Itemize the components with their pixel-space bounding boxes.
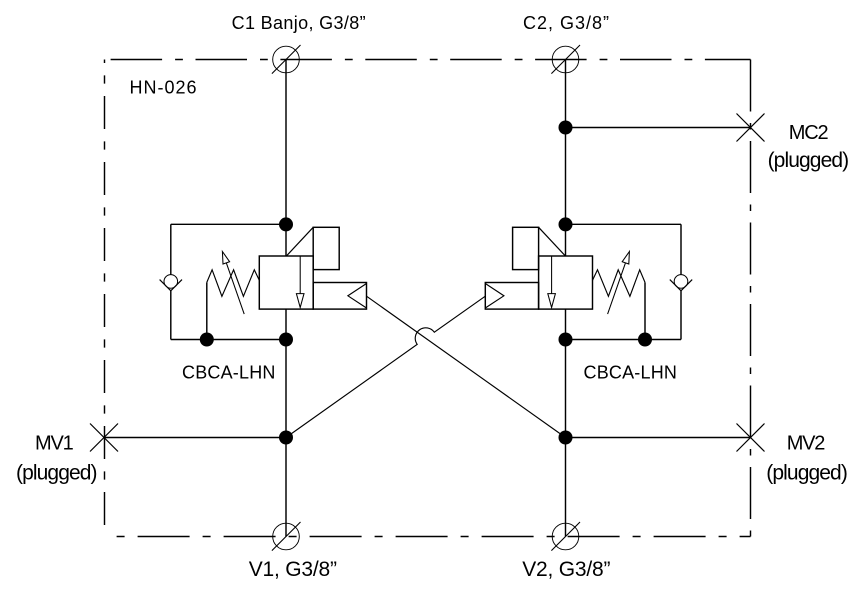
svg-text:V2, G3/8”: V2, G3/8” — [522, 558, 610, 581]
left CBCA-LHN: wire bottom rail — [171, 339, 286, 341]
pilot piston arrow (right CBCA-LHN) — [485, 284, 504, 309]
pilot piston arrow (left CBCA-LHN) — [348, 284, 367, 309]
pilot box upper (left CBCA-LHN) — [313, 227, 339, 269]
junction node right valve bottom — [559, 333, 573, 347]
pilot line left valve to MV2 node — [367, 296, 566, 437]
junction node MV2 — [559, 431, 573, 445]
pilot connection diagonal (right CBCA-LHN) — [539, 227, 566, 256]
check valve seat (right CBCA-LHN) — [670, 280, 692, 291]
adjustment arrow (right CBCA-LHN) — [608, 252, 630, 315]
svg-text:(plugged): (plugged) — [16, 461, 97, 484]
port MC2 plugged (X on right boundary) — [737, 114, 765, 142]
pilot piston box (left CBCA-LHN) — [313, 283, 366, 310]
port MV1 plugged (X on left boundary) — [90, 424, 118, 452]
adjustment arrow (left CBCA-LHN) — [222, 252, 244, 315]
valve body (left CBCA-LHN) — [259, 256, 313, 309]
wire right valve box to V2 — [565, 309, 567, 536]
relief flow path arrow (right CBCA-LHN) — [548, 256, 556, 308]
check valve ball (right CBCA-LHN) — [674, 275, 688, 289]
right CBCA-LHN: wire check valve branch upper — [680, 224, 682, 274]
port C2 (top boundary) — [551, 45, 580, 74]
relief spring (left CBCA-LHN) — [207, 270, 260, 297]
svg-text:CBCA-LHN: CBCA-LHN — [182, 362, 276, 382]
pilot connection diagonal (left CBCA-LHN) — [286, 227, 313, 256]
left CBCA-LHN: wire spring branch — [206, 282, 208, 339]
svg-text:HN-026: HN-026 — [130, 77, 198, 97]
svg-text:C1 Banjo, G3/8”: C1 Banjo, G3/8” — [232, 13, 366, 33]
wire C1 line (port C1 down to left valve box) — [285, 60, 287, 257]
left CBCA-LHN: wire top rail — [171, 223, 286, 225]
wire left valve box to V1 — [285, 309, 287, 536]
port C1 (banjo port on top boundary) — [272, 45, 301, 74]
port V1 (bottom boundary) — [272, 522, 301, 551]
wire MV2 branch — [566, 437, 751, 439]
relief spring (right CBCA-LHN) — [592, 270, 645, 297]
svg-text:CBCA-LHN: CBCA-LHN — [584, 362, 678, 382]
right CBCA-LHN: wire bottom rail — [566, 339, 682, 341]
junction node left spring branch — [200, 333, 214, 347]
manifold boundary (dash-dot outline) top edge — [105, 59, 751, 61]
port V2 (bottom boundary) — [551, 522, 580, 551]
junction node left valve bottom — [279, 333, 293, 347]
svg-text:(plugged): (plugged) — [766, 461, 847, 484]
junction node right spring branch — [638, 333, 652, 347]
svg-text:C2, G3/8”: C2, G3/8” — [523, 13, 610, 33]
manifold boundary right edge — [750, 60, 752, 537]
right CBCA-LHN: wire spring branch — [644, 282, 646, 339]
wire MV1 branch — [105, 437, 287, 439]
right CBCA-LHN: wire top rail — [566, 223, 682, 225]
port MV2 plugged (X on right boundary) — [737, 424, 765, 452]
check valve seat (left CBCA-LHN) — [160, 280, 182, 291]
pilot line right valve to MV1 node (with crossover hop) — [286, 296, 485, 437]
left CBCA-LHN: wire check valve branch lower — [170, 291, 172, 340]
relief flow path arrow (left CBCA-LHN) — [296, 256, 304, 308]
junction node C1/top rail — [279, 217, 293, 231]
svg-text:MV2: MV2 — [787, 433, 826, 455]
check valve ball (left CBCA-LHN) — [164, 275, 178, 289]
right CBCA-LHN: wire check valve branch lower — [680, 291, 682, 340]
manifold boundary bottom edge — [105, 536, 751, 538]
valve body (right CBCA-LHN) — [539, 256, 593, 309]
left CBCA-LHN: wire check valve branch upper — [170, 224, 172, 274]
junction node MV1 — [279, 431, 293, 445]
svg-text:(plugged): (plugged) — [768, 149, 849, 172]
junction node MC2 — [559, 121, 573, 135]
pilot box upper (right CBCA-LHN) — [513, 227, 539, 269]
wire MC2 branch — [566, 127, 751, 129]
manifold boundary left edge — [104, 60, 106, 537]
svg-text:MV1: MV1 — [35, 433, 74, 455]
wire C2 line (port C2 down to right valve box) — [565, 60, 567, 257]
pilot piston box (right CBCA-LHN) — [485, 283, 538, 310]
junction node C2/top rail — [559, 217, 573, 231]
svg-text:V1, G3/8”: V1, G3/8” — [249, 558, 337, 581]
svg-text:MC2: MC2 — [789, 122, 829, 144]
